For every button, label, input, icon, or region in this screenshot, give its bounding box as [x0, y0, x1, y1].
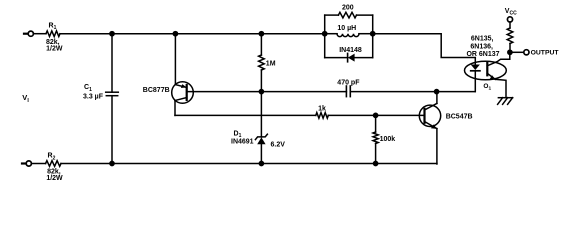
zener diode D1 IN4691 [255, 134, 267, 144]
node: 1M / zener junction on base line [259, 90, 263, 94]
wire terminal to R2 [31, 163, 45, 165]
R2 value 82k 1/2W [46, 168, 63, 182]
node: 100k top junction [374, 113, 378, 117]
svg-text:200: 200 [342, 4, 354, 11]
wire box to LED anode [373, 34, 476, 65]
resistor 1k [316, 113, 329, 119]
resistor 1M [259, 55, 265, 70]
optocoupler O1 6N135/6N136/6N137 [465, 52, 510, 97]
input terminal top (+) [24, 31, 33, 36]
svg-text:C1: C1 [84, 84, 92, 93]
svg-text:R1: R1 [49, 23, 57, 32]
svg-text:1/2W: 1/2W [46, 45, 63, 52]
ground [498, 98, 513, 105]
svg-text:BC877B: BC877B [143, 87, 170, 94]
svg-text:10 µH: 10 µH [337, 25, 356, 32]
svg-text:OR 6N137: OR 6N137 [466, 51, 499, 58]
R1 value 82k 1/2W [46, 39, 63, 53]
node: Q1 emitter junction [173, 32, 177, 36]
svg-text:100k: 100k [380, 136, 396, 143]
inductor 10uH (middle branch) [325, 34, 373, 37]
node: box right junction [371, 32, 375, 36]
wire terminal to R1 [33, 33, 46, 35]
wire resistor to output node [509, 44, 511, 53]
wire 470pF to Q2 collector node [350, 91, 475, 93]
node: Q2 collector junction [435, 90, 439, 94]
output terminal [524, 50, 529, 55]
resistor pull-up (Vcc) [507, 28, 513, 44]
box left side [324, 15, 326, 58]
svg-text:1M: 1M [266, 60, 276, 67]
input terminal bottom [22, 161, 31, 166]
svg-text:470 pF: 470 pF [337, 79, 360, 86]
node: zener bottom junction [259, 161, 263, 165]
node: 100k bottom junction [374, 161, 378, 165]
svg-text:6.2V: 6.2V [271, 141, 286, 148]
svg-text:BC547B: BC547B [446, 114, 473, 121]
transistor Q BC877B (PNP) [172, 34, 194, 116]
capacitor 470pF [346, 86, 350, 97]
resistor 100k [373, 132, 378, 144]
svg-text:3.3 µF: 3.3 µF [83, 93, 104, 100]
node: C1 bottom junction [110, 161, 114, 165]
resistor R1 [46, 31, 60, 37]
transistor Q2 BC547B (NPN) [419, 92, 440, 164]
node: box left junction [323, 32, 327, 36]
wire Vcc to resistor [509, 22, 511, 28]
wire 100k top lead [375, 115, 377, 132]
wire bottom rail [61, 163, 437, 165]
Vcc terminal [505, 8, 517, 22]
svg-text:VCC: VCC [505, 8, 517, 17]
diode IN4148 (bottom branch, pointing left) [325, 53, 373, 61]
node: C1 top junction [110, 32, 114, 36]
wire zener bottom lead [260, 144, 262, 163]
svg-text:O1: O1 [483, 83, 491, 92]
wire to output terminal [510, 51, 524, 53]
resistor 200 (top branch) [325, 12, 373, 18]
wire 1M bottom lead [260, 70, 262, 92]
svg-text:6N136,: 6N136, [470, 44, 493, 51]
optocoupler part numbers [466, 36, 499, 59]
wire Q1 base to 470pF [188, 91, 347, 93]
node: 1M top junction [259, 32, 263, 36]
box right side [372, 15, 374, 58]
svg-text:6N135,: 6N135, [471, 36, 494, 43]
capacitor C1 [106, 92, 119, 96]
wire 1k to Q2 base [328, 114, 424, 116]
wire zener top lead [260, 92, 262, 137]
svg-text:1k: 1k [318, 106, 326, 113]
wire C1 bottom lead [111, 96, 113, 164]
svg-text:IN4148: IN4148 [339, 47, 362, 54]
wire Q1 collector to 1k [175, 114, 316, 116]
svg-text:VI: VI [22, 93, 29, 104]
wire 100k bottom lead [375, 144, 377, 164]
wire top rail R1 to box [60, 33, 325, 35]
node: output junction [508, 50, 512, 54]
svg-text:IN4691: IN4691 [231, 139, 254, 146]
svg-text:1/2W: 1/2W [46, 175, 63, 180]
svg-text:OUTPUT: OUTPUT [531, 50, 560, 57]
wire C1 top lead [111, 34, 113, 92]
wire 1M top lead [260, 34, 262, 55]
resistor R2 [46, 161, 61, 167]
